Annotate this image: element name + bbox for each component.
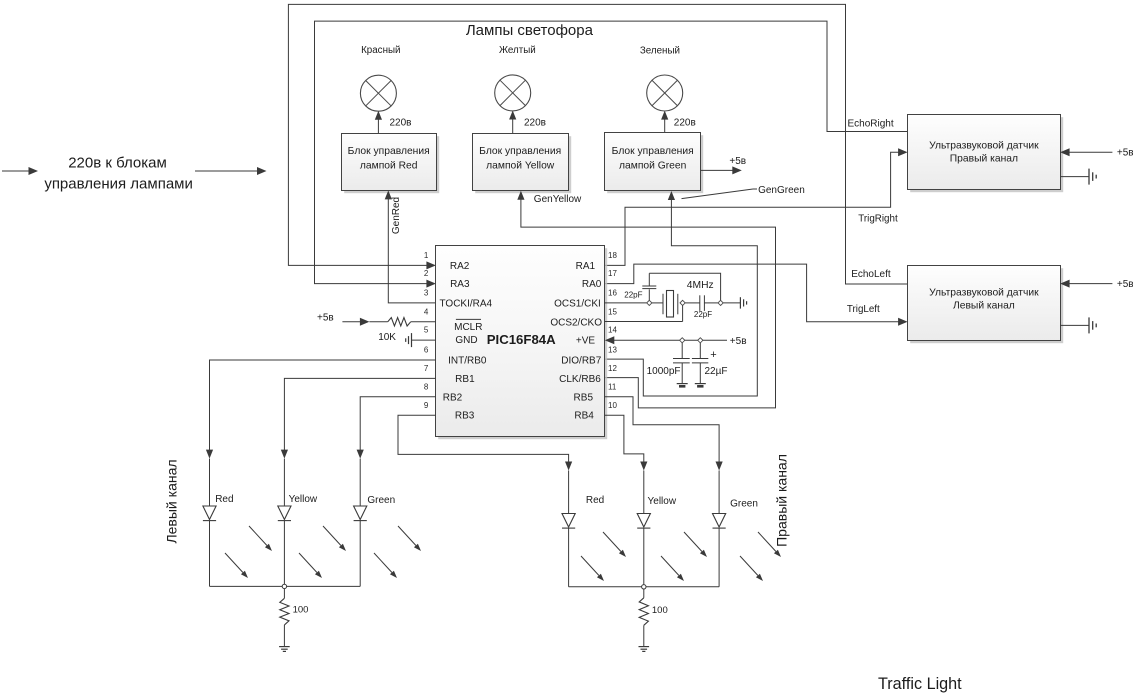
- svg-text:GenRed: GenRed: [391, 197, 402, 234]
- svg-text:8: 8: [424, 382, 429, 391]
- wire pin11 RB5 to right green LED: [605, 397, 723, 514]
- label LED right Green: [730, 499, 758, 510]
- wire bus to R3: [643, 589, 645, 598]
- svg-text:16: 16: [608, 289, 617, 298]
- svg-text:22µF: 22µF: [705, 366, 728, 377]
- label 10K: [378, 332, 396, 343]
- ground C4: [695, 384, 706, 387]
- svg-text:TOCKI/RA4: TOCKI/RA4: [439, 298, 492, 309]
- IC U1 pin numbers: [424, 251, 618, 410]
- label GenRed: [391, 197, 402, 234]
- wire +5в to resistor: [342, 318, 436, 326]
- label +5в green block: [729, 156, 746, 167]
- svg-text:Желтый: Желтый: [499, 45, 536, 56]
- light arrows left LEDs: [225, 526, 421, 578]
- svg-text:Green: Green: [730, 499, 758, 510]
- svg-text:220в: 220в: [524, 118, 546, 129]
- LED D5 right yellow: [637, 514, 650, 529]
- svg-text:Левый канал: Левый канал: [953, 301, 1015, 312]
- svg-text:4: 4: [424, 307, 429, 316]
- svg-text:TrigLeft: TrigLeft: [847, 304, 880, 315]
- svg-text:+: +: [710, 349, 716, 361]
- label 220в red: [390, 118, 412, 129]
- svg-text:22pF: 22pF: [694, 310, 712, 319]
- label Левый канал: [163, 459, 179, 543]
- svg-text:3: 3: [424, 289, 429, 298]
- label Лампы светофора: [466, 22, 594, 39]
- ground C3: [677, 384, 688, 387]
- wire ground right sensor: [1060, 169, 1096, 185]
- svg-text:GND: GND: [455, 335, 477, 346]
- wire EchoRight loop from right ultrasonic sensor to pin 2 RA3: [315, 21, 908, 288]
- wire node B to C2: [685, 302, 700, 304]
- svg-text:220в: 220в: [390, 118, 412, 129]
- svg-text:лампой Green: лампой Green: [619, 160, 687, 171]
- label +5в supply: [730, 336, 747, 347]
- lamp L2 yellow: [495, 75, 531, 111]
- svg-text:2: 2: [424, 269, 429, 278]
- svg-text:RA1: RA1: [576, 261, 596, 272]
- node X1-C: [718, 300, 723, 305]
- label TrigLeft: [847, 304, 880, 315]
- label C2 22pF: [694, 310, 712, 319]
- wire R3 to ground: [643, 625, 645, 646]
- wire +5в to pin 14 +VE: [605, 336, 727, 344]
- svg-text:управления лампами: управления лампами: [44, 175, 193, 192]
- svg-text:+5в: +5в: [730, 336, 747, 347]
- svg-text:лампой Yellow: лампой Yellow: [486, 160, 555, 171]
- svg-text:+5в: +5в: [1117, 279, 1133, 290]
- svg-text:TrigRight: TrigRight: [858, 213, 898, 224]
- svg-text:14: 14: [608, 326, 617, 335]
- svg-text:OCS1/CKI: OCS1/CKI: [554, 298, 601, 309]
- label R2 100: [293, 605, 309, 616]
- wire +5в into left sensor: [1060, 280, 1112, 288]
- wire pin16 OCS1 to crystal: [605, 302, 647, 304]
- block Блок управления лампой Yellow: [473, 134, 572, 194]
- svg-text:Блок управления: Блок управления: [612, 146, 694, 157]
- lamp L3 green: [647, 75, 683, 111]
- block Блок управления лампой Red: [342, 134, 440, 194]
- wire pin8 RB2 to left green LED: [357, 397, 436, 506]
- svg-text:RA0: RA0: [582, 279, 602, 290]
- IC U1 PIC16F84A body: [436, 246, 608, 440]
- LED D1 left red: [203, 506, 216, 521]
- svg-text:CLK/RB6: CLK/RB6: [559, 374, 601, 385]
- wire pin10 RB4 to right yellow LED: [605, 415, 648, 513]
- wire lamp yellow feed: [509, 111, 516, 134]
- resistor R2 100: [280, 598, 289, 625]
- wire GenGreen from pin 13 DIO/RB7 to green block: [605, 191, 758, 396]
- LED D4 right red: [562, 514, 575, 529]
- ground right channel: [639, 647, 650, 652]
- svg-text:15: 15: [608, 307, 617, 316]
- wire GenRed from pin 3 RA4 to red block: [385, 190, 436, 303]
- label LED right Red: [586, 495, 604, 506]
- wire ground left sensor: [1060, 317, 1096, 333]
- svg-text:Блок управления: Блок управления: [348, 146, 430, 157]
- wire pin15 OCS2 loop: [605, 306, 683, 322]
- label + C4: [710, 349, 716, 361]
- svg-text:12: 12: [608, 364, 617, 373]
- label Правый канал: [773, 454, 789, 547]
- svg-text:RB1: RB1: [455, 374, 475, 385]
- svg-text:EchoLeft: EchoLeft: [851, 269, 891, 280]
- wire GND pin5: [412, 339, 436, 341]
- svg-text:PIC16F84A: PIC16F84A: [487, 332, 556, 347]
- svg-text:+5в: +5в: [1117, 147, 1133, 158]
- LED D2 left yellow: [278, 506, 291, 521]
- svg-text:+5в: +5в: [317, 313, 334, 324]
- light arrows right LEDs: [581, 532, 781, 581]
- svg-text:220в к блокам: 220в к блокам: [68, 155, 167, 172]
- capacitor C4 22uF: [692, 343, 708, 384]
- wire TrigRight from pin 18 RA1 to right sensor: [605, 148, 908, 265]
- svg-text:220в: 220в: [674, 118, 696, 129]
- wire +5в output of green block: [701, 166, 742, 174]
- label 22µF: [705, 366, 728, 377]
- wire 220v arrow to lamp control blocks: [195, 167, 267, 175]
- svg-text:Левый канал: Левый канал: [163, 459, 179, 543]
- node C3 top: [680, 338, 685, 343]
- label LED left Green: [367, 495, 395, 506]
- svg-text:INT/RB0: INT/RB0: [448, 356, 487, 367]
- label R3 100: [652, 605, 668, 616]
- svg-text:+VE: +VE: [576, 336, 596, 347]
- label GenGreen with leader: [682, 185, 805, 199]
- wire bus to R2: [283, 589, 285, 599]
- svg-text:RA2: RA2: [450, 261, 470, 272]
- label LED right Yellow: [648, 496, 677, 507]
- LED D3 left green: [354, 506, 367, 521]
- svg-text:+5в: +5в: [729, 156, 746, 167]
- svg-text:Red: Red: [215, 494, 233, 505]
- svg-text:7: 7: [424, 364, 429, 373]
- block ultrasonic sensor right channel: [908, 115, 1064, 193]
- svg-text:Green: Green: [367, 495, 395, 506]
- wire TrigLeft from pin 17 RA0 to left sensor: [605, 264, 908, 326]
- block Блок управления лампой Green: [605, 133, 704, 194]
- svg-text:GenGreen: GenGreen: [758, 185, 805, 196]
- svg-text:RB3: RB3: [455, 411, 475, 422]
- wire EchoLeft loop from left ultrasonic sensor to pin 1 RA2: [288, 4, 907, 284]
- svg-text:Red: Red: [586, 495, 604, 506]
- lamp Зеленый label: [640, 46, 680, 57]
- svg-text:11: 11: [608, 382, 617, 391]
- wire lamp red feed: [375, 111, 382, 133]
- wire +5в into right sensor: [1060, 148, 1112, 156]
- svg-text:GenYellow: GenYellow: [534, 194, 582, 205]
- resistor R1 10K: [388, 318, 411, 326]
- crystal Y1 4MHz: [663, 291, 678, 318]
- label 220в green: [674, 118, 696, 129]
- wire R2 to ground: [283, 625, 285, 647]
- svg-text:EchoRight: EchoRight: [848, 119, 894, 130]
- ground left channel: [279, 647, 290, 652]
- resistor R3 100: [639, 598, 648, 626]
- label C1 22pF: [624, 291, 642, 300]
- node right bus junction: [642, 585, 646, 589]
- lamp L1 red: [360, 75, 396, 111]
- svg-text:RB4: RB4: [574, 411, 594, 422]
- svg-text:Yellow: Yellow: [648, 496, 677, 507]
- svg-text:Правый канал: Правый канал: [773, 454, 789, 547]
- svg-text:100: 100: [652, 605, 668, 616]
- svg-text:4MHz: 4MHz: [687, 280, 714, 291]
- wire GenYellow from pin 12 CLK/RB6 to yellow block: [517, 191, 775, 408]
- wire node C to ground: [723, 302, 740, 304]
- label 220в yellow: [524, 118, 546, 129]
- capacitor C2 22pF: [700, 295, 705, 311]
- svg-text:100: 100: [293, 605, 309, 616]
- svg-text:Правый канал: Правый канал: [950, 154, 1018, 165]
- label LED left Yellow: [289, 494, 318, 505]
- label TrigRight: [858, 213, 898, 224]
- node C4 top: [698, 338, 703, 343]
- svg-text:1000pF: 1000pF: [647, 366, 681, 377]
- wire crystal top loop: [649, 273, 720, 300]
- label EchoLeft: [851, 269, 891, 280]
- svg-text:1: 1: [424, 251, 429, 260]
- wire pin6 INT/RB0 to left red LED: [206, 360, 436, 506]
- capacitor C1 22pF: [642, 273, 656, 300]
- svg-text:17: 17: [608, 269, 617, 278]
- wire left LED cathodes to bus: [210, 521, 361, 587]
- svg-text:10: 10: [608, 401, 617, 410]
- label LED left Red: [215, 494, 233, 505]
- node left bus junction: [282, 584, 286, 588]
- svg-text:Блок управления: Блок управления: [479, 146, 561, 157]
- lamp Красный label: [361, 45, 400, 56]
- svg-text:10K: 10K: [378, 332, 396, 343]
- svg-text:Красный: Красный: [361, 45, 400, 56]
- svg-text:RB5: RB5: [574, 392, 594, 403]
- svg-text:MCLR: MCLR: [454, 322, 482, 333]
- ground pin5: [406, 333, 412, 347]
- svg-text:DIO/RB7: DIO/RB7: [561, 356, 601, 367]
- label +5в left sensor: [1117, 279, 1133, 290]
- label +5в mclr: [317, 313, 334, 324]
- wire pin9 RB3 to right red LED: [398, 415, 572, 513]
- wire pin7 RB1 to left yellow LED: [281, 378, 436, 506]
- label +5в right sensor: [1117, 147, 1133, 158]
- svg-text:Лампы светофора: Лампы светофора: [466, 22, 594, 39]
- svg-text:RA3: RA3: [450, 279, 470, 290]
- svg-text:Зеленый: Зеленый: [640, 46, 680, 57]
- svg-text:лампой Red: лампой Red: [360, 160, 418, 171]
- wire C2 to node C: [704, 302, 718, 304]
- LED D6 right green: [713, 514, 726, 529]
- IC U1 pin labels: [439, 261, 602, 422]
- label 1000pF: [647, 366, 681, 377]
- svg-text:5: 5: [424, 326, 429, 335]
- wire lamp green feed: [661, 111, 668, 133]
- svg-text:Ультразвуковой датчик: Ультразвуковой датчик: [929, 140, 1039, 151]
- svg-text:Yellow: Yellow: [289, 494, 318, 505]
- label 220в к блокам управления лампами: [44, 155, 193, 193]
- lamp Желтый label: [499, 45, 536, 56]
- label Traffic Light: [878, 675, 962, 693]
- label 4MHz: [687, 280, 714, 291]
- svg-text:Traffic Light: Traffic Light: [878, 675, 962, 693]
- svg-text:22pF: 22pF: [624, 291, 642, 300]
- wire right LED cathodes to bus: [569, 528, 720, 587]
- block ultrasonic sensor left channel: [908, 266, 1064, 344]
- svg-text:13: 13: [608, 346, 617, 355]
- wire 220v input arrow left: [2, 167, 38, 175]
- node X1-A: [647, 300, 652, 305]
- label EchoRight: [848, 119, 894, 130]
- svg-text:9: 9: [424, 401, 429, 410]
- svg-text:18: 18: [608, 251, 617, 260]
- label GenYellow: [534, 194, 582, 205]
- ground crystal: [740, 297, 746, 308]
- wire node A to crystal: [652, 302, 663, 304]
- svg-text:6: 6: [424, 346, 429, 355]
- capacitor C3 1000pF: [673, 343, 690, 384]
- svg-text:RB2: RB2: [443, 392, 463, 403]
- svg-text:Ультразвуковой датчик: Ультразвуковой датчик: [929, 288, 1039, 299]
- svg-text:OCS2/CKO: OCS2/CKO: [550, 317, 602, 328]
- node X1-B: [680, 300, 685, 305]
